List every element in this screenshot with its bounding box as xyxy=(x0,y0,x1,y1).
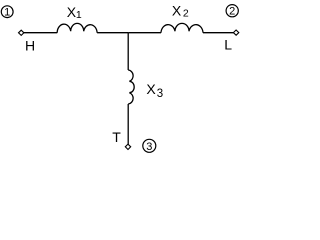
svg-text:3: 3 xyxy=(146,141,152,153)
svg-text:H: H xyxy=(25,38,35,54)
wire junction down to X3 xyxy=(127,33,129,70)
svg-text:T: T xyxy=(112,129,121,145)
wire H terminal to X1 xyxy=(24,32,57,34)
label X1 xyxy=(67,4,82,21)
svg-text:2: 2 xyxy=(229,6,235,18)
label X2 xyxy=(172,3,189,20)
inductor X3 xyxy=(128,70,134,104)
label X3 xyxy=(146,81,163,100)
svg-text:L: L xyxy=(224,36,232,52)
node 1 marker (circled 1 at terminal H) xyxy=(1,6,13,19)
wire X2 to terminal L xyxy=(203,32,234,34)
terminal H diamond xyxy=(19,30,24,35)
svg-text:3: 3 xyxy=(157,88,163,100)
node 3 marker (circled 3 at terminal T) xyxy=(143,139,156,153)
terminal L diamond xyxy=(233,30,238,35)
terminal T diamond xyxy=(125,144,130,149)
wire X3 to terminal T xyxy=(127,104,129,144)
svg-text:X: X xyxy=(146,81,156,97)
svg-text:1: 1 xyxy=(4,7,10,19)
wire X1 to junction xyxy=(97,32,128,34)
junction node xyxy=(128,32,161,34)
svg-text:X: X xyxy=(172,3,182,19)
node 2 marker (circled 2 at terminal L) xyxy=(226,5,238,18)
inductor X2 xyxy=(161,23,203,32)
svg-text:2: 2 xyxy=(183,7,189,19)
inductor X1 xyxy=(57,23,97,32)
svg-text:1: 1 xyxy=(76,9,82,21)
